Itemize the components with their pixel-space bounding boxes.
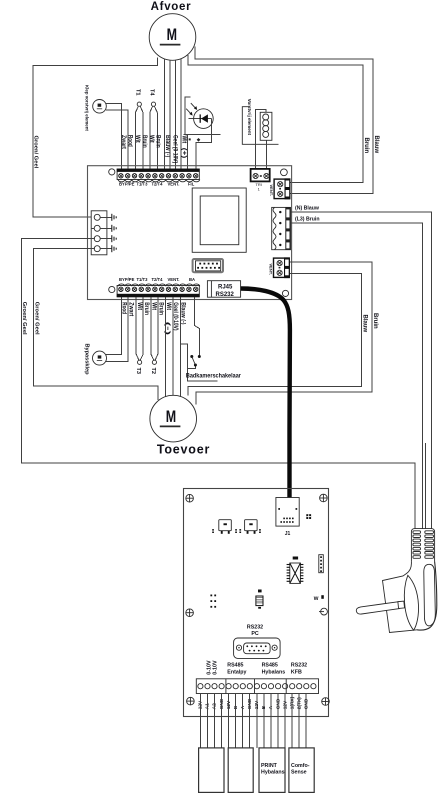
svg-text:Bruin: Bruin: [158, 302, 164, 315]
pads between Q1 Q2: [235, 529, 237, 531]
svg-text:BYP/PE: BYP/PE: [119, 181, 135, 186]
wire M1 Bruin to right loop inner: [188, 55, 363, 183]
svg-text:Rood: Rood: [121, 302, 127, 314]
svg-text:Zwart: Zwart: [127, 302, 133, 316]
wire N Blauw: [291, 212, 432, 528]
svg-text:VENT.: VENT.: [168, 277, 180, 282]
svg-text:(N) Blauw: (N) Blauw: [295, 205, 320, 211]
svg-text:Toevoer: Toevoer: [157, 443, 210, 457]
cable RJ45 to J1: [241, 289, 290, 501]
wire Zwart to bypass actuator: [106, 297, 128, 362]
wire Rood to bypass actuator: [106, 297, 122, 355]
wire Blauw branch to switch and stub: [181, 344, 218, 381]
svg-text:Bruin: Bruin: [155, 135, 161, 148]
svg-text:Bypassklep: Bypassklep: [83, 344, 89, 376]
wire labels below bottom strip: [121, 302, 186, 335]
svg-text:Groen/ Geel: Groen/ Geel: [21, 302, 27, 335]
svg-text:T1/T3: T1/T3: [137, 181, 149, 186]
svg-text:RS485: RS485: [227, 663, 243, 669]
wire Klep to terminal pin2 Rood: [106, 110, 128, 169]
svg-text:Blauw: Blauw: [373, 136, 379, 154]
svg-text:M: M: [167, 25, 177, 44]
module box A: [199, 748, 224, 793]
svg-text:Bruin: Bruin: [141, 135, 147, 148]
svg-text:T4: T4: [149, 89, 155, 96]
svg-text:Zwart: Zwart: [120, 135, 126, 149]
terminal strip bottom: [117, 284, 200, 297]
svg-text:Bruin: Bruin: [363, 138, 369, 154]
plug face dome: [404, 575, 418, 630]
PCB2 mounting screw bottom-right: [322, 698, 330, 706]
svg-text:T3: T3: [135, 368, 141, 375]
terminal strip bottom pins: [119, 287, 198, 291]
motor M1 Afvoer: [149, 14, 196, 61]
svg-text:Groen/ Geel: Groen/ Geel: [33, 302, 39, 335]
svg-text:(-): (-): [164, 322, 170, 335]
PCB1 mounting holes: [109, 169, 115, 175]
svg-text:RJ45: RJ45: [218, 284, 233, 290]
svg-text:Blauw (-): Blauw (-): [164, 135, 170, 157]
svg-text:BA: BA: [189, 277, 195, 282]
pads left of Q1: [212, 529, 214, 531]
svg-text:Klep vorstvrij element: Klep vorstvrij element: [85, 85, 90, 131]
Vorstvrij element heater: [242, 99, 278, 169]
wire rail to Toevoer chassis: [33, 249, 158, 400]
svg-text:Vorstvrij element: Vorstvrij element: [247, 99, 252, 136]
terminal strip PCB2: [196, 679, 318, 694]
wire M2 right inner: [188, 273, 361, 395]
Badkamerschakelaar switch: [187, 297, 200, 369]
sensor bracket wire: [185, 97, 191, 134]
transistor Q1: [219, 520, 232, 531]
IC U2 small: [256, 590, 263, 609]
svg-text:Afvoer: Afvoer: [151, 1, 192, 13]
svg-text:Wit: Wit: [180, 136, 186, 144]
PCB2 mounting screw bottom-left: [187, 697, 195, 705]
svg-text:KFB: KFB: [291, 670, 302, 676]
svg-text:Entalpy: Entalpy: [227, 670, 246, 676]
plug body: [383, 562, 418, 633]
svg-text:T2/T4: T2/T4: [152, 277, 164, 282]
heater coil: [260, 112, 272, 140]
sensor wire to FIL pin: [187, 134, 189, 169]
wire pin2 stub left: [91, 227, 94, 229]
terminal strip top labels: [119, 181, 195, 186]
wire labels above top terminal strip: [120, 135, 186, 163]
plug pin: [356, 602, 399, 614]
svg-text:VENT.: VENT.: [269, 185, 274, 196]
PCB1 outline: [88, 166, 292, 300]
RJ45 / RS232 box: [207, 281, 240, 298]
svg-text:Wit: Wit: [151, 302, 157, 310]
photodiode arrows: [191, 103, 196, 109]
thermistor T1: [135, 102, 143, 169]
wire PE rail to plug earth: [21, 239, 415, 529]
PCB2 outline: [184, 489, 329, 717]
connector VENT bottom: [274, 257, 290, 278]
svg-text:Sense: Sense: [291, 770, 307, 776]
cord inner wire: [424, 443, 426, 529]
svg-text:Badkamerschakelaar: Badkamerschakelaar: [186, 373, 242, 380]
pads right of Q2: [259, 529, 261, 531]
wires PCB2 to modules: [200, 694, 306, 748]
DB9 connector: [234, 638, 281, 658]
connector J1: [276, 498, 299, 527]
PCB2 mounting screw mid-left: [186, 609, 194, 617]
svg-text:w: w: [313, 596, 319, 602]
connector 5-pin right: [319, 555, 324, 573]
wire M1 Blauw to right loop outer: [195, 47, 373, 194]
svg-text:Bruin: Bruin: [143, 302, 149, 315]
svg-text:RS485: RS485: [262, 663, 278, 669]
PCB2 mounting hole mid-right: [321, 608, 328, 615]
svg-text:0-10V: 0-10V: [212, 660, 218, 675]
svg-text:Hybalans: Hybalans: [261, 770, 285, 776]
connector VENT top: [274, 178, 290, 199]
pad grid 2x3: [210, 595, 212, 597]
terminal TRI: [251, 169, 270, 182]
IC U1 crossed: [287, 557, 304, 584]
Bypassklep actuator: [93, 351, 107, 365]
wire Klep to terminal pin1 Zwart: [106, 104, 122, 169]
svg-text:PC: PC: [251, 631, 259, 637]
component pad right of J1: [306, 514, 311, 519]
transistor Q2: [245, 520, 258, 531]
svg-text:BYP/PE: BYP/PE: [119, 277, 135, 282]
thermistor T3: [136, 297, 143, 365]
svg-text:T2: T2: [150, 368, 156, 375]
svg-text:RS232: RS232: [247, 625, 263, 631]
svg-text:Comfo-: Comfo-: [291, 763, 310, 769]
terminal strip top pins: [119, 174, 198, 178]
thermistor T4: [150, 102, 158, 169]
svg-text:T2/T4: T2/T4: [152, 181, 164, 186]
PCB2 mounting screw top-right: [320, 494, 328, 502]
Klep vorstvrij element actuator: [93, 100, 107, 114]
svg-text:(L3) Bruin: (L3) Bruin: [295, 217, 320, 223]
svg-text:Rood: Rood: [127, 135, 133, 147]
module PRINT Hybalans: [259, 748, 285, 793]
svg-text:Wit: Wit: [136, 302, 142, 310]
mains cord strain relief: [411, 529, 434, 562]
wire M2 motor leads: [165, 297, 167, 398]
wire coil to TRI pin1: [255, 109, 266, 169]
svg-text:M: M: [166, 407, 176, 426]
mains connector: [272, 207, 291, 249]
motor M2 Toevoer: [150, 395, 197, 442]
display window: [192, 188, 246, 252]
svg-text:Wit: Wit: [148, 135, 154, 143]
svg-text:RS232: RS232: [216, 292, 235, 298]
plug cable guard: [424, 564, 436, 626]
module box B: [228, 748, 253, 793]
svg-text:VENT.: VENT.: [268, 264, 273, 275]
svg-text:T1/T3: T1/T3: [137, 277, 149, 282]
svg-text:(+): (+): [180, 148, 186, 158]
wire coil to TRI pin2: [265, 140, 267, 169]
svg-text:Wit: Wit: [134, 135, 140, 143]
svg-text:RS232: RS232: [291, 663, 307, 669]
svg-text:Hybalans: Hybalans: [262, 670, 286, 676]
wire L3 Bruin: [291, 223, 423, 528]
svg-text:PRINT: PRINT: [261, 763, 278, 769]
svg-text:Geel (0-10V): Geel (0-10V): [171, 135, 177, 163]
polarity marks: [189, 138, 191, 140]
svg-text:FIL: FIL: [188, 181, 195, 186]
thermistor T2: [151, 297, 158, 365]
svg-text:Groen/ Geel: Groen/ Geel: [33, 136, 39, 169]
svg-text:VENT.: VENT.: [168, 181, 180, 186]
module Comfo-Sense: [289, 748, 314, 793]
svg-text:Blauw: Blauw: [362, 315, 368, 333]
light sensor photodiode: [184, 97, 221, 169]
svg-text:T1: T1: [135, 89, 141, 96]
terminal strip bottom labels: [119, 277, 195, 282]
svg-text:Bruin: Bruin: [372, 313, 378, 329]
wire M1 chassis to left rail Groen/Geel: [33, 58, 158, 217]
IDC connector: [193, 259, 223, 272]
sensor output wire: [196, 119, 211, 169]
terminal strip top: [117, 169, 200, 182]
PCB2 pin labels: [198, 696, 310, 709]
svg-text:J1: J1: [285, 531, 291, 537]
sensor bus line: [184, 133, 221, 135]
photodiode circle: [194, 109, 214, 129]
wire M2 right outer: [196, 262, 372, 405]
PCB2 mounting screw top-left: [186, 494, 194, 502]
pin stub lines to IO marks: [100, 216, 112, 218]
wire M1 motor leads (4): [163, 59, 165, 170]
